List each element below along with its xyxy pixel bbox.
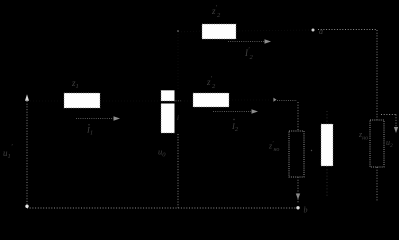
svg-text:b: b — [304, 206, 308, 215]
svg-text:a: a — [319, 27, 323, 36]
svg-text:i: i — [177, 114, 179, 122]
